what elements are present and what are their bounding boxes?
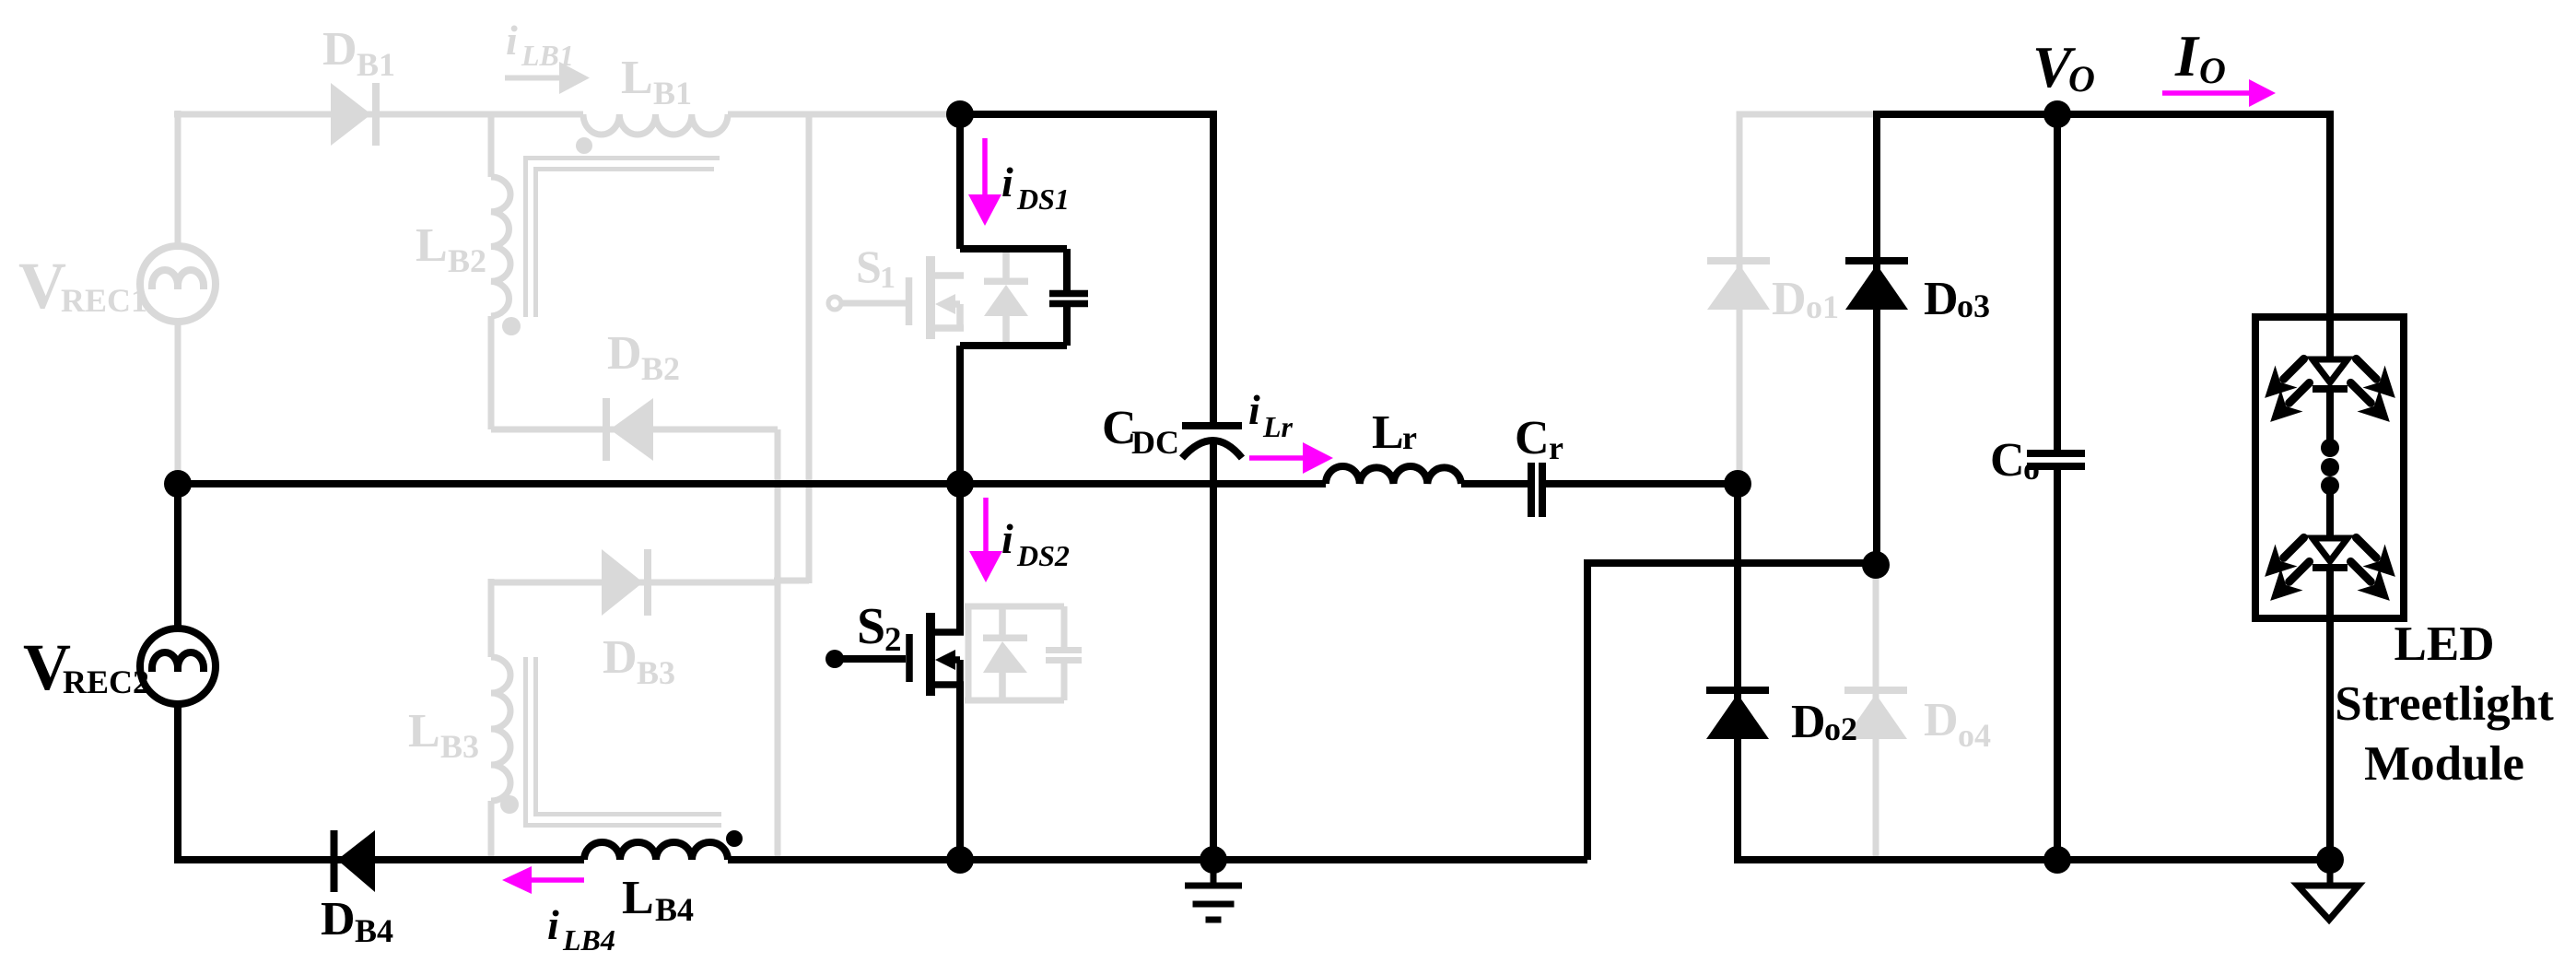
ground symbol at CDC branch	[1185, 860, 1242, 920]
wire L-link from bottom bus to node B	[1587, 563, 1876, 860]
wire CDC vertical bottom to bottom bus	[1210, 440, 1217, 860]
snubber box of S2 (gray wires)	[965, 606, 1064, 700]
svg-text:i: i	[1248, 386, 1260, 433]
wire LED2 to bottom bus	[2326, 570, 2334, 860]
svg-text:D: D	[321, 893, 356, 945]
svg-text:B2: B2	[448, 242, 486, 279]
inductor LB3 arcs	[491, 657, 510, 801]
source VREC2 circle	[140, 628, 216, 704]
inductor LB1 arcs	[583, 114, 728, 135]
current arrow iLB1	[505, 76, 561, 81]
transistor S1 gate bar	[906, 277, 913, 325]
transistor S2 gate bar	[906, 634, 913, 682]
wire top rail segment B	[1873, 111, 2334, 118]
phase dot LB3	[500, 795, 519, 814]
transistor S2 gate lead	[835, 655, 906, 663]
wire inside box to LED1	[2326, 321, 2334, 360]
wire S2 drain from node	[956, 484, 964, 632]
svg-text:2: 2	[884, 621, 902, 659]
node dots	[164, 100, 2344, 874]
diode Do3	[1845, 257, 1908, 310]
svg-text:LB4: LB4	[562, 923, 615, 957]
svg-text:i: i	[547, 901, 559, 948]
transistor S1 gate lead	[841, 300, 906, 307]
wire bottom left bus	[179, 856, 1587, 863]
LED1 emission arrows	[2254, 347, 2406, 432]
transistor S2 arrow lead	[954, 660, 960, 685]
svg-text:L: L	[416, 219, 448, 272]
svg-text:o: o	[2023, 450, 2040, 487]
svg-text:S: S	[857, 598, 885, 655]
svg-text:DS1: DS1	[1016, 182, 1070, 216]
svg-text:Lr: Lr	[1262, 410, 1294, 443]
BLACK LAYER	[140, 100, 2406, 920]
svg-text:D: D	[1772, 273, 1807, 325]
transistor S1 arrow lead	[954, 304, 960, 328]
core lines LB1-LB2	[526, 159, 720, 318]
transistor S1 source lead	[931, 324, 964, 332]
wire S1 snubber bottom step	[960, 307, 1067, 346]
wire S1 source to mid bus	[956, 346, 964, 484]
wire DB2 horizontal	[491, 427, 778, 433]
wire top rail segment A	[960, 111, 1217, 118]
diode DB2	[603, 398, 653, 461]
capacitor CDC top plate	[1182, 422, 1242, 429]
capacitor Cr plates	[1531, 463, 1542, 517]
svg-text:B4: B4	[355, 912, 393, 949]
svg-text:L: L	[622, 872, 654, 924]
phase dot LB1	[576, 137, 592, 154]
svg-text:Module: Module	[2364, 737, 2524, 791]
wire dots to LED2	[2326, 493, 2334, 538]
svg-text:D: D	[322, 23, 357, 76]
LED1 cathode bar	[2313, 385, 2348, 393]
svg-text:I: I	[2174, 23, 2200, 88]
svg-text:O: O	[2199, 50, 2226, 91]
wire Do3 branch	[1873, 114, 1880, 565]
svg-text:i: i	[1001, 159, 1013, 206]
wire LB2 bottom lead	[488, 316, 495, 429]
series dots	[2321, 439, 2339, 495]
wire S1 snubber top step	[960, 249, 1067, 290]
svg-text:o4: o4	[1958, 717, 1991, 754]
svg-text:D: D	[603, 631, 638, 684]
transistor S1 drain lead	[931, 272, 964, 279]
LED2 cathode bar	[2313, 564, 2348, 571]
LED2 emission arrows	[2254, 526, 2406, 611]
transistor S2 channel bar	[926, 613, 935, 696]
svg-text:REC2: REC2	[63, 664, 149, 700]
wire LED1 to dots	[2326, 392, 2334, 440]
svg-text:D: D	[607, 327, 642, 380]
wire Co bottom lead	[2054, 470, 2061, 860]
wire LB2 top lead	[488, 114, 495, 177]
snubber capacitor of S2 plates	[1046, 651, 1082, 661]
LED module box	[2255, 317, 2404, 618]
svg-text:DS2: DS2	[1016, 539, 1070, 572]
wire DB3 horizontal	[491, 580, 778, 586]
svg-text:S: S	[856, 241, 882, 292]
svg-text:1: 1	[880, 261, 896, 295]
diode DB4	[331, 830, 338, 892]
svg-text:C: C	[1515, 412, 1550, 464]
svg-text:Streetlight: Streetlight	[2335, 677, 2554, 731]
source VREC2 ac m-symbol	[152, 652, 204, 672]
wire VREC2 stem bottom	[174, 704, 181, 863]
svg-text:i: i	[506, 17, 518, 64]
wire Do1 branch top	[1739, 112, 1873, 485]
svg-text:L: L	[621, 52, 653, 104]
body diode of S2	[999, 606, 1006, 700]
inductor LB2 arcs	[491, 177, 510, 316]
diode DB3	[602, 549, 651, 616]
inductor LB4 arcs	[584, 842, 728, 860]
svg-text:B2: B2	[641, 350, 680, 387]
ground symbol at LED branch	[2327, 860, 2334, 886]
svg-text:i: i	[1001, 515, 1013, 562]
capacitor Co plates	[2027, 453, 2085, 466]
body diode of S1	[1002, 251, 1010, 343]
svg-text:B3: B3	[637, 654, 675, 691]
diode Do2	[1706, 687, 1769, 739]
svg-text:r: r	[1402, 419, 1417, 456]
transistor S2 drain lead	[931, 628, 964, 636]
GRAY LAYER	[140, 62, 1907, 860]
wire LB3 bottom lead	[488, 801, 495, 860]
phase dot LB2	[502, 317, 521, 335]
wire bottom right bus	[1734, 856, 2330, 863]
transistor S1 gate circle	[828, 297, 841, 310]
wire VREC1 stem top	[175, 111, 181, 246]
svg-text:B1: B1	[357, 46, 395, 83]
svg-text:r: r	[1549, 429, 1563, 466]
LED2 triangle	[2313, 538, 2348, 561]
wire gray vertical x844 DB2 return to bottom bus	[775, 429, 781, 860]
svg-text:V: V	[18, 249, 66, 323]
diode Do1	[1707, 257, 1770, 310]
transistor S2 source lead	[931, 681, 964, 688]
inductor Lr arcs	[1326, 466, 1461, 484]
transistor S1 channel bar	[926, 256, 935, 339]
svg-text:D: D	[1791, 696, 1826, 748]
wire Do4 branch	[1873, 565, 1879, 860]
svg-text:o1: o1	[1806, 288, 1839, 325]
svg-text:D: D	[1924, 694, 1959, 746]
svg-text:LB1: LB1	[521, 39, 574, 72]
current arrow iDS1	[982, 138, 988, 196]
diode DB1	[331, 83, 380, 146]
wire CDC vertical top	[1210, 111, 1217, 422]
source VREC1 circle	[140, 246, 216, 322]
svg-text:o2: o2	[1824, 711, 1857, 747]
svg-text:REC1: REC1	[61, 282, 147, 319]
wire VREC2 stem top	[174, 484, 181, 628]
svg-text:B4: B4	[655, 891, 694, 928]
svg-text:B3: B3	[440, 728, 479, 765]
wire gray vertical x878 from top rail	[774, 114, 809, 583]
svg-text:DC: DC	[1131, 424, 1179, 461]
wire S1 drain from node A	[956, 114, 964, 249]
wire LB3 top lead	[488, 579, 495, 657]
current arrow iLr	[1249, 455, 1305, 461]
svg-text:C: C	[1990, 434, 2025, 487]
wire mid bus	[178, 480, 1738, 487]
svg-text:L: L	[408, 705, 440, 757]
core lines LB3-LB4	[526, 657, 722, 826]
svg-text:D: D	[1924, 273, 1959, 325]
snubber capacitor of S1 plates	[1049, 294, 1088, 304]
phase dot LB4	[726, 830, 743, 847]
transistor S2 arrow	[935, 650, 955, 670]
wire gray top rail from VREC1 corner to node A	[174, 112, 964, 118]
svg-text:B1: B1	[653, 75, 692, 112]
transistor S2 gate terminal dot	[825, 650, 844, 668]
current arrow IO	[2162, 90, 2251, 96]
transistor S1 arrow	[935, 294, 955, 314]
diode Do4	[1844, 687, 1907, 739]
current arrow iLB4	[530, 877, 584, 883]
svg-text:L: L	[1372, 406, 1404, 459]
MAGENTA LAYER	[502, 79, 2276, 894]
wire S2 source to bottom bus	[956, 685, 964, 860]
current arrow iDS2	[983, 498, 989, 553]
svg-text:o3: o3	[1957, 288, 1990, 324]
svg-text:LED: LED	[2395, 617, 2495, 671]
LED1 triangle	[2313, 359, 2348, 382]
svg-text:O: O	[2068, 58, 2095, 100]
capacitor CDC curved plate	[1182, 440, 1242, 458]
source VREC1 ac m-symbol	[152, 270, 204, 289]
wire Do2 branch vertical	[1734, 484, 1741, 860]
wire VREC1 stem bottom to mid bus	[175, 322, 181, 484]
wire LED string top	[2326, 111, 2334, 321]
wire Vo branch vertical	[2054, 114, 2061, 450]
